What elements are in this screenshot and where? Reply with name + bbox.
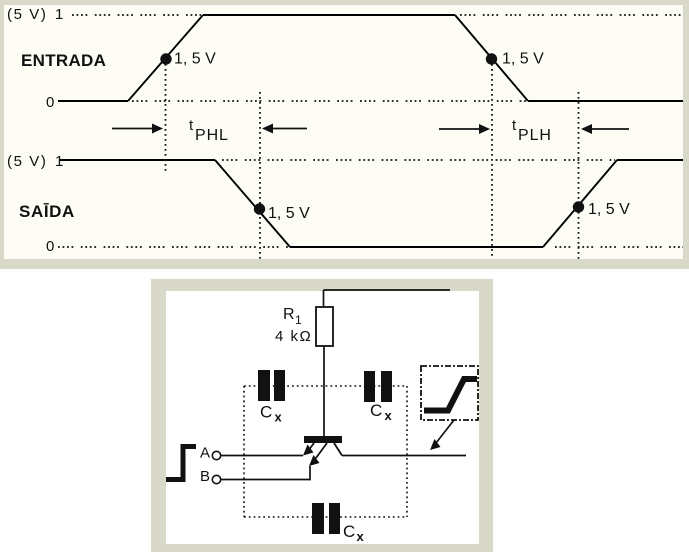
- wire input low level right solid: [528, 100, 683, 102]
- wire output low level solid: [290, 246, 543, 248]
- svg-text:1, 5 V: 1, 5 V: [174, 51, 216, 68]
- dotted level input high left: [72, 14, 201, 16]
- dotted vertical at input rise 1.5V: [165, 64, 167, 172]
- capacitor Cx bottom: [312, 503, 365, 544]
- wire output high level right solid: [617, 159, 683, 161]
- arrow tPLH left: [439, 124, 490, 134]
- wire input rising edge: [128, 15, 203, 101]
- terminal circle B: [212, 475, 220, 483]
- node dot input fall 1.5V: [486, 53, 497, 64]
- arrow inset to output wire: [430, 420, 454, 450]
- svg-text:ENTRADA: ENTRADA: [21, 51, 106, 70]
- dotted vertical at output fall 1.5V: [259, 92, 261, 259]
- svg-text:SAĪDA: SAĪDA: [19, 202, 75, 221]
- svg-text:PLH: PLH: [518, 127, 552, 144]
- svg-text:1, 5 V: 1, 5 V: [588, 201, 630, 218]
- dotted vertical at input fall 1.5V: [491, 64, 493, 259]
- arrow tPHL left: [112, 124, 163, 134]
- dotted vertical at output rise 1.5V: [578, 92, 580, 259]
- svg-text:1, 5 V: 1, 5 V: [268, 205, 310, 222]
- wire input high level solid: [203, 14, 455, 16]
- svg-text:1: 1: [55, 6, 63, 23]
- svg-text:R: R: [283, 306, 295, 323]
- wire input falling edge: [455, 15, 528, 101]
- svg-text:C: C: [370, 401, 382, 420]
- svg-text:1, 5 V: 1, 5 V: [502, 51, 544, 68]
- transfer curve: [424, 379, 477, 411]
- svg-text:1: 1: [55, 153, 63, 170]
- svg-text:1: 1: [295, 313, 302, 327]
- svg-text:C: C: [343, 522, 355, 541]
- capacitor Cx left: [258, 370, 285, 425]
- wire output rising edge: [543, 160, 617, 247]
- dotted level input low: [132, 100, 526, 102]
- svg-text:0: 0: [46, 94, 54, 111]
- timing diagram panel white interior: [4, 5, 683, 259]
- wire input B: [221, 466, 310, 480]
- input step symbol: [166, 447, 196, 480]
- svg-text:0: 0: [46, 238, 54, 255]
- node dot input rise 1.5V: [160, 53, 171, 64]
- dashed box around Cx network: [244, 386, 407, 517]
- wire VCC rail: [324, 289, 451, 291]
- svg-text:x: x: [385, 408, 393, 423]
- circuit panel white interior: [166, 291, 479, 544]
- wire input low level left solid: [58, 100, 128, 102]
- transfer-curve inset box: [421, 366, 478, 420]
- wire output high level left solid: [60, 159, 215, 161]
- svg-text:x: x: [275, 410, 283, 425]
- dotted level output high: [222, 159, 615, 161]
- node dot output fall 1.5V: [254, 203, 265, 214]
- svg-text:A: A: [200, 445, 210, 462]
- emitter A: [308, 443, 314, 451]
- node dot output rise 1.5V: [573, 201, 584, 212]
- wire resistor to transistor base: [323, 346, 325, 437]
- terminal circle A: [212, 451, 220, 459]
- dotted level output low left: [58, 246, 288, 248]
- dotted level input high right: [460, 14, 683, 16]
- arrow tPLH right: [581, 124, 629, 134]
- svg-text:PHL: PHL: [195, 127, 229, 144]
- svg-text:(5 V): (5 V): [7, 153, 48, 170]
- resistor R1: [316, 307, 333, 346]
- svg-text:t: t: [512, 117, 517, 134]
- svg-text:x: x: [357, 529, 365, 544]
- wire output: [342, 455, 466, 457]
- emitter B: [313, 443, 327, 462]
- arrow tPHL right: [262, 124, 307, 134]
- collector to output: [334, 443, 342, 456]
- dotted level output low right: [555, 246, 683, 248]
- base bar: [304, 436, 342, 443]
- capacitor Cx right: [364, 371, 393, 423]
- svg-text:4 kΩ: 4 kΩ: [275, 328, 312, 345]
- wire VCC rail to R1: [323, 290, 325, 307]
- wire output falling edge: [215, 160, 290, 247]
- svg-text:C: C: [260, 403, 272, 422]
- wire input A: [221, 455, 303, 457]
- svg-text:t: t: [189, 117, 194, 134]
- transistor Q1 multi-emitter: [303, 436, 342, 466]
- svg-text:(5 V): (5 V): [7, 6, 48, 23]
- circuit panel frame: [151, 279, 493, 552]
- timing diagram panel frame: [0, 0, 689, 269]
- svg-text:B: B: [200, 468, 210, 485]
